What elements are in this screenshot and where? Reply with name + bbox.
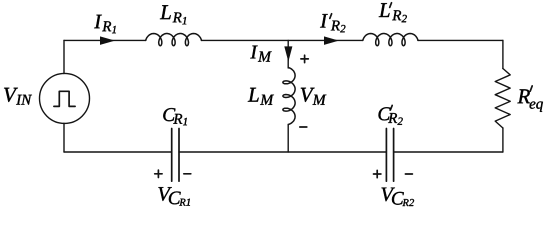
label V_CR2 — [382, 188, 415, 206]
label C'_R2 — [379, 107, 403, 125]
wire: source bottom lead — [63, 123, 65, 152]
wire: right branch bottom lead — [502, 128, 504, 152]
label I_M — [250, 46, 271, 62]
current arrow I_M (downward) — [284, 46, 292, 61]
resistor R'_eq zigzag — [495, 69, 510, 129]
inductor L_M coil — [283, 68, 295, 125]
label I_R1 — [94, 15, 116, 33]
wire: bottom-middle horizontal segment — [179, 151, 386, 153]
current arrow I'_R2 — [324, 36, 339, 45]
minus sign right of C_R1 — [184, 173, 191, 175]
plus sign above L_M — [301, 55, 308, 62]
wire: middle branch top lead — [287, 40, 289, 68]
current arrow I_R1 — [100, 36, 115, 45]
wire: middle branch bottom lead — [287, 124, 289, 152]
minus sign right of C'_R2 — [405, 173, 412, 175]
label V_IN — [4, 88, 32, 105]
capacitor C'_R2 plates — [386, 129, 393, 182]
prime of R'_eq — [530, 86, 532, 91]
minus sign below L_M — [300, 126, 307, 128]
wire: right branch top lead — [502, 40, 504, 68]
plus sign left of C'_R2 — [374, 170, 381, 177]
wire: bottom-left horizontal segment — [64, 151, 172, 153]
label L'_R2 — [379, 3, 407, 22]
label C_R1 — [163, 108, 187, 125]
wire: top-right horizontal segment — [418, 39, 503, 41]
voltage source V_IN circle — [40, 73, 90, 123]
inductor L_R1 coil — [146, 34, 202, 46]
label V_CR1 — [158, 187, 190, 205]
wire: top-left horizontal segment — [64, 39, 146, 41]
label L_R1 — [160, 5, 186, 24]
label L_M — [248, 88, 274, 105]
pulse waveform symbol — [54, 91, 75, 106]
wire: top-middle horizontal segment — [201, 39, 363, 41]
wire: bottom-right horizontal segment — [394, 151, 503, 153]
prime of C'_R2 — [390, 105, 392, 110]
prime of I'_R2 — [330, 14, 332, 19]
wire: source top lead — [63, 40, 65, 73]
label R'_eq — [517, 89, 543, 111]
label I'_R2 — [320, 14, 345, 32]
prime of L'_R2 — [390, 3, 392, 8]
capacitor C_R1 plates — [172, 129, 179, 182]
label V_M — [301, 88, 327, 105]
plus sign left of C_R1 — [155, 170, 162, 177]
inductor L'_R2 coil — [363, 34, 418, 46]
